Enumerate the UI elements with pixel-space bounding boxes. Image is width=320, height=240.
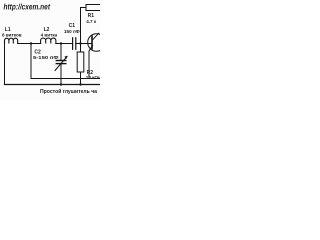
transistor emitter (89, 45, 93, 78)
upper rail (31, 78, 100, 80)
wire junction A down (30, 44, 32, 79)
node A junction L1/L2 (30, 42, 32, 44)
wire node B down to C2 (60, 44, 62, 61)
transistor base bar (91, 36, 93, 48)
wire node C down to R2 (80, 44, 82, 53)
svg-text:5-150 пФ: 5-150 пФ (33, 55, 59, 60)
svg-text:4.7 к: 4.7 к (86, 19, 97, 24)
wire L1 to L2 (18, 43, 41, 45)
capacitor C1 plates (72, 38, 74, 50)
wire bias up from node C to R1 (81, 8, 87, 44)
inductor L2 (41, 38, 56, 43)
transistor VT1 circle (88, 34, 106, 52)
transistor collector (93, 33, 99, 40)
node B junction L2/C2 (60, 42, 62, 44)
svg-text:http://cxem.net: http://cxem.net (4, 2, 51, 12)
lower rail (5, 84, 101, 86)
wire L2 to C1 (56, 43, 72, 45)
node R2/rail junction (79, 83, 81, 85)
wire R2 down to lower rail (80, 72, 82, 85)
svg-text:6 витков: 6 витков (2, 33, 22, 38)
capacitor C2 variable plates (56, 60, 66, 62)
inductor L1 (4, 38, 17, 43)
wire C2 down to lower rail (60, 64, 62, 84)
resistor R2 (77, 52, 84, 72)
node C junction base/R1/R2 (79, 42, 81, 44)
C2 arrow (55, 57, 67, 71)
node C2/rail junction (60, 83, 62, 85)
wire left vertical (4, 42, 6, 85)
svg-text:4 витка: 4 витка (41, 33, 58, 38)
resistor R1 (86, 5, 101, 11)
svg-text:Простой глушитель ча: Простой глушитель ча (40, 88, 97, 95)
svg-text:150 пФ: 150 пФ (64, 29, 80, 34)
wire C1 to transistor base (76, 43, 92, 45)
svg-text:10 кОм: 10 кОм (86, 75, 100, 80)
